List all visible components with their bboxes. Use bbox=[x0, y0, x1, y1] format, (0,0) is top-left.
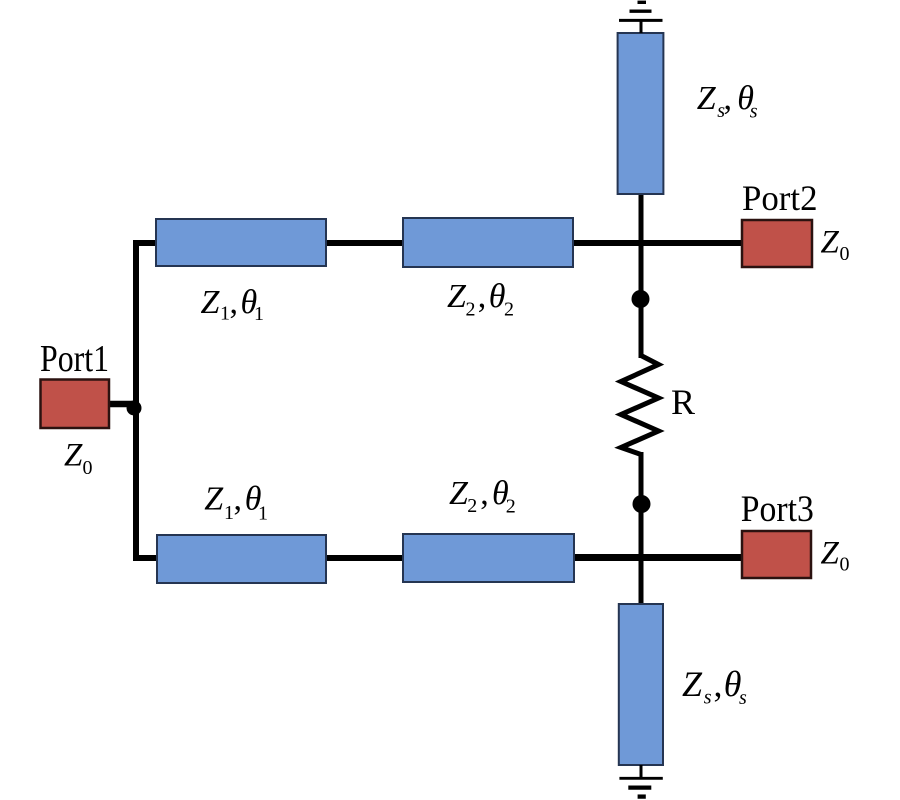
svg-text:,: , bbox=[478, 278, 487, 315]
svg-text:2: 2 bbox=[504, 299, 514, 321]
svg-text:1: 1 bbox=[258, 503, 268, 525]
node dot upper bbox=[632, 290, 650, 308]
svg-text:0: 0 bbox=[840, 243, 850, 265]
svg-text:,: , bbox=[234, 481, 243, 518]
svg-text:Z: Z bbox=[64, 438, 83, 474]
node dot at Port1 bus bbox=[127, 401, 142, 416]
label Z2,theta2 top bbox=[447, 278, 514, 321]
transmission line Z1,theta1 bottom bbox=[157, 535, 326, 583]
svg-text:Port3: Port3 bbox=[741, 489, 814, 530]
label Z2,theta2 bottom bbox=[449, 475, 516, 518]
svg-text:Port1: Port1 bbox=[40, 338, 109, 380]
transmission line Z2,theta2 top bbox=[403, 218, 573, 267]
label Zs,thetas top bbox=[697, 80, 758, 123]
label Zs,thetas bottom bbox=[682, 664, 747, 709]
stub Zs,thetas top bbox=[618, 33, 664, 194]
label Z1,theta1 bottom bbox=[204, 481, 268, 525]
label Z0 at Port3 bbox=[821, 536, 850, 576]
svg-text:Z: Z bbox=[821, 225, 840, 261]
node dot lower bbox=[633, 495, 651, 513]
label Z0 at Port2 bbox=[821, 225, 850, 266]
svg-text:,: , bbox=[714, 664, 723, 704]
svg-text:θ: θ bbox=[489, 278, 506, 315]
svg-text:0: 0 bbox=[83, 457, 93, 479]
resistor R zigzag bbox=[621, 356, 659, 455]
svg-text:R: R bbox=[671, 382, 695, 422]
Port2 terminal bbox=[742, 220, 812, 267]
svg-text:Z: Z bbox=[449, 475, 469, 512]
svg-text:1: 1 bbox=[224, 502, 234, 524]
svg-text:Port2: Port2 bbox=[742, 178, 818, 218]
label Z1,theta1 top bbox=[201, 284, 265, 325]
wire: top branch between TL1 and TL2 bbox=[325, 240, 404, 246]
svg-text:,: , bbox=[724, 80, 733, 117]
svg-text:Z: Z bbox=[201, 284, 221, 321]
svg-text:Z: Z bbox=[447, 278, 467, 315]
wire: bottom branch from bus to TL3 bbox=[133, 555, 158, 561]
svg-text:s: s bbox=[704, 687, 712, 709]
svg-text:2: 2 bbox=[466, 299, 476, 321]
svg-text:Z: Z bbox=[204, 481, 224, 518]
svg-text:s: s bbox=[739, 687, 747, 709]
wire: top stub vertical down through junction to resistor top bbox=[639, 193, 644, 358]
svg-text:1: 1 bbox=[220, 303, 230, 325]
wire: top branch from bus to TL1 bbox=[133, 240, 158, 246]
ground top (flipped) bbox=[619, 2, 663, 33]
transmission line Z1,theta1 top bbox=[156, 219, 326, 266]
wire: bottom branch between TL3 and TL4 bbox=[325, 555, 404, 561]
wire: top branch from TL2 through junction to Port2 bbox=[572, 240, 742, 246]
wire: resistor bottom lead through node to bottom junction and stub bbox=[639, 452, 644, 605]
svg-text:Z: Z bbox=[682, 664, 703, 704]
svg-text:s: s bbox=[750, 101, 758, 123]
Port3 terminal bbox=[742, 531, 811, 578]
wire: bottom branch from TL4 through junction to Port3 bbox=[573, 554, 742, 561]
svg-text:2: 2 bbox=[467, 495, 477, 517]
svg-text:,: , bbox=[480, 475, 489, 512]
wire: left bus vertical from top branch to bottom branch bbox=[133, 240, 139, 561]
ground bottom bbox=[619, 765, 662, 797]
transmission line Z2,theta2 bottom bbox=[403, 534, 574, 582]
svg-text:Z: Z bbox=[821, 536, 840, 572]
Port1 terminal bbox=[41, 380, 110, 429]
stub Zs,thetas bottom bbox=[619, 604, 663, 765]
svg-text:1: 1 bbox=[254, 303, 264, 325]
label Z0 at Port1 bbox=[64, 438, 93, 480]
svg-text:Z: Z bbox=[697, 80, 717, 117]
svg-text:,: , bbox=[230, 284, 239, 321]
wire: Port1 to bus bbox=[108, 401, 139, 408]
svg-text:0: 0 bbox=[840, 554, 850, 576]
svg-text:2: 2 bbox=[506, 496, 516, 518]
